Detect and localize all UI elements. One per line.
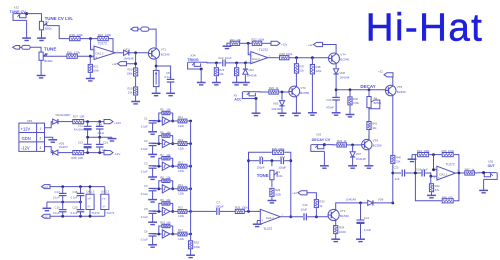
svg-text:DA2.1: DA2.1 — [440, 172, 448, 176]
svg-text:C3: C3 — [144, 162, 148, 166]
svg-text:33k: 33k — [396, 160, 401, 164]
svg-text:R25: R25 — [272, 147, 278, 151]
svg-text:VT6: VT6 — [373, 139, 379, 143]
svg-text:TUNE: TUNE — [44, 47, 57, 52]
svg-text:DA2.3: DA2.3 — [101, 190, 109, 194]
svg-text:+12: +12 — [44, 186, 49, 189]
svg-text:1N4148: 1N4148 — [356, 157, 366, 161]
svg-text:0.1uF: 0.1uF — [71, 211, 78, 215]
svg-text:VT3: VT3 — [300, 86, 306, 90]
svg-text:0.1uF: 0.1uF — [141, 147, 148, 151]
svg-text:120k: 120k — [178, 214, 184, 218]
svg-text:+12: +12 — [378, 70, 383, 74]
svg-text:TONE: TONE — [257, 173, 269, 178]
svg-text:10k: 10k — [236, 38, 241, 42]
svg-text:OUT: OUT — [488, 164, 495, 168]
svg-text:R46: R46 — [442, 195, 448, 199]
svg-text:+12v: +12v — [281, 43, 288, 47]
svg-text:10k: 10k — [166, 221, 171, 225]
svg-text:1uF: 1uF — [395, 177, 400, 181]
svg-text:470k: 470k — [353, 101, 359, 105]
svg-text:+12: +12 — [308, 43, 313, 47]
svg-text:100k: 100k — [194, 245, 201, 249]
svg-text:+12V: +12V — [114, 121, 121, 125]
svg-text:C5: C5 — [144, 207, 148, 211]
svg-text:C20: C20 — [72, 205, 78, 209]
svg-text:C6: C6 — [144, 229, 148, 233]
svg-text:-: - — [95, 48, 96, 52]
svg-text:+12: +12 — [292, 191, 297, 195]
svg-text:1uF: 1uF — [102, 148, 107, 152]
svg-text:390k: 390k — [278, 147, 285, 151]
svg-text:X34: X34 — [190, 53, 196, 57]
svg-text:1N4007: 1N4007 — [59, 145, 69, 149]
svg-text:X33: X33 — [316, 132, 322, 136]
svg-text:BC546: BC546 — [340, 214, 349, 218]
svg-text:1N4148: 1N4148 — [346, 198, 357, 202]
svg-text:C4: C4 — [144, 184, 148, 188]
svg-text:C12: C12 — [78, 124, 84, 128]
svg-text:R16: R16 — [67, 51, 73, 55]
svg-text:10k: 10k — [166, 176, 171, 180]
svg-text:X35: X35 — [488, 159, 494, 163]
svg-text:R20: R20 — [127, 68, 132, 72]
svg-text:10R: 10R — [78, 156, 83, 160]
svg-text:100k: 100k — [241, 206, 248, 210]
svg-text:C17: C17 — [55, 190, 61, 194]
svg-text:22k: 22k — [300, 68, 305, 72]
svg-text:-12V: -12V — [21, 145, 30, 150]
svg-text:10nF: 10nF — [225, 56, 232, 60]
svg-text:120k: 120k — [178, 169, 184, 173]
svg-text:BC546: BC546 — [161, 52, 170, 56]
svg-text:C22: C22 — [326, 98, 332, 102]
svg-text:R7: R7 — [160, 153, 164, 157]
svg-text:GDN: GDN — [22, 136, 31, 141]
svg-text:0.1uF: 0.1uF — [53, 196, 60, 200]
svg-text:C24: C24 — [416, 168, 422, 172]
svg-text:ACC: ACC — [234, 98, 242, 102]
svg-text:2.2uF: 2.2uF — [364, 228, 372, 232]
svg-text:R27: R27 — [73, 114, 79, 118]
svg-text:1N4148: 1N4148 — [123, 57, 134, 61]
svg-text:47k: 47k — [435, 188, 440, 192]
svg-text:B10k: B10k — [276, 174, 283, 178]
svg-text:R28: R28 — [71, 156, 77, 160]
svg-text:470nF: 470nF — [326, 106, 334, 110]
svg-text:R18: R18 — [280, 52, 286, 56]
svg-text:10R: 10R — [79, 114, 84, 118]
svg-text:TL072: TL072 — [263, 227, 272, 231]
svg-text:1uF: 1uF — [423, 168, 428, 172]
svg-text:R41: R41 — [372, 122, 377, 126]
svg-text:0.1uF: 0.1uF — [141, 170, 148, 174]
svg-text:100k: 100k — [127, 72, 133, 76]
svg-text:120k: 120k — [77, 33, 84, 37]
svg-text:R37: R37 — [300, 64, 305, 68]
svg-text:R3: R3 — [276, 170, 280, 174]
svg-text:-: - — [261, 211, 262, 215]
svg-text:VT2: VT2 — [340, 209, 346, 213]
svg-text:C13: C13 — [78, 140, 84, 144]
svg-text:BC556: BC556 — [300, 91, 309, 95]
svg-text:VD4: VD4 — [248, 68, 254, 72]
svg-text:-: - — [252, 53, 253, 57]
svg-text:R45: R45 — [442, 149, 448, 153]
svg-text:0.1uF: 0.1uF — [53, 211, 60, 215]
svg-text:R21: R21 — [230, 38, 236, 42]
svg-text:100pF: 100pF — [278, 166, 286, 170]
svg-text:VD6: VD6 — [378, 198, 384, 202]
svg-text:100pF: 100pF — [257, 166, 265, 170]
svg-text:VD8: VD8 — [340, 71, 346, 75]
svg-text:120k: 120k — [178, 237, 184, 241]
svg-text:+12V: +12V — [21, 127, 31, 132]
svg-text:R43: R43 — [417, 149, 423, 153]
svg-text:C21: C21 — [364, 216, 370, 220]
svg-text:R44: R44 — [435, 184, 440, 188]
svg-text:+V: +V — [87, 196, 91, 200]
svg-text:0.1uF: 0.1uF — [141, 215, 148, 219]
svg-text:+V: +V — [102, 196, 106, 200]
svg-text:TUNE CV LVL: TUNE CV LVL — [45, 16, 74, 21]
svg-text:1: 1 — [40, 127, 42, 131]
svg-text:C5: C5 — [259, 155, 263, 159]
svg-text:DA1.3: DA1.3 — [87, 190, 95, 194]
svg-text:BC546: BC546 — [397, 90, 406, 94]
svg-text:100k: 100k — [258, 37, 265, 41]
svg-text:47k: 47k — [448, 195, 453, 199]
svg-text:C18: C18 — [72, 190, 78, 194]
svg-text:1N4148: 1N4148 — [271, 107, 281, 111]
svg-text:-: - — [438, 168, 439, 172]
svg-text:1N4148: 1N4148 — [247, 74, 257, 78]
svg-text:10k: 10k — [219, 72, 224, 76]
svg-text:10k: 10k — [166, 153, 171, 157]
svg-text:120k: 120k — [178, 192, 184, 196]
svg-text:R8: R8 — [160, 176, 164, 180]
svg-text:R22: R22 — [252, 37, 258, 41]
svg-text:-V: -V — [102, 205, 105, 209]
svg-text:+: + — [261, 219, 263, 223]
svg-text:R19: R19 — [127, 87, 132, 91]
svg-text:R11: R11 — [178, 115, 183, 119]
svg-text:BC556: BC556 — [373, 144, 382, 148]
svg-text:120k: 120k — [178, 124, 184, 128]
svg-text:R39: R39 — [337, 139, 343, 143]
svg-text:TL072: TL072 — [259, 48, 268, 52]
svg-text:0.1uF: 0.1uF — [141, 192, 148, 196]
svg-text:R40: R40 — [396, 155, 401, 159]
svg-text:C1: C1 — [144, 116, 148, 120]
svg-text:0.1uF: 0.1uF — [98, 131, 105, 135]
svg-text:3: 3 — [40, 146, 42, 150]
svg-text:VD5: VD5 — [59, 142, 65, 146]
svg-text:TL072: TL072 — [446, 162, 455, 166]
svg-text:R13: R13 — [178, 160, 183, 164]
svg-text:R9: R9 — [160, 198, 164, 202]
svg-text:B100k: B100k — [44, 59, 53, 63]
svg-text:TL072: TL072 — [106, 211, 114, 215]
svg-text:120k: 120k — [74, 51, 81, 55]
svg-text:0.1uF: 0.1uF — [71, 196, 78, 200]
svg-text:100k: 100k — [448, 149, 455, 153]
svg-text:-V: -V — [87, 205, 90, 209]
svg-text:C14: C14 — [97, 123, 103, 127]
svg-text:10uF: 10uF — [301, 207, 308, 211]
svg-text:100k: 100k — [286, 52, 293, 56]
svg-text:VD1: VD1 — [125, 47, 131, 51]
svg-text:0.1uF: 0.1uF — [141, 237, 148, 241]
svg-text:VT5: VT5 — [397, 85, 403, 89]
svg-text:R10: R10 — [160, 221, 165, 225]
svg-text:TL072: TL072 — [92, 211, 100, 215]
svg-text:BC546: BC546 — [340, 58, 349, 62]
svg-text:+: + — [95, 55, 97, 59]
svg-text:TL072: TL072 — [98, 42, 107, 46]
svg-text:10k: 10k — [372, 126, 377, 130]
svg-text:R5: R5 — [160, 108, 164, 112]
svg-text:C11: C11 — [280, 155, 285, 159]
svg-text:R1: R1 — [45, 52, 49, 56]
svg-text:10k: 10k — [166, 108, 171, 112]
svg-text:C10: C10 — [218, 56, 224, 60]
svg-text:120k: 120k — [316, 69, 322, 73]
svg-text:100k: 100k — [275, 192, 281, 196]
svg-text:R22: R22 — [98, 33, 104, 37]
svg-text:10k: 10k — [166, 130, 171, 134]
svg-text:2: 2 — [40, 137, 42, 141]
svg-text:DA2.2: DA2.2 — [252, 57, 260, 61]
svg-text:+12: +12 — [112, 62, 117, 66]
svg-text:R18: R18 — [69, 33, 75, 37]
svg-text:R42: R42 — [353, 97, 358, 101]
svg-text:1N4148: 1N4148 — [340, 76, 350, 80]
svg-text:R12: R12 — [178, 138, 183, 142]
svg-text:C23: C23 — [393, 165, 399, 169]
svg-text:C16: C16 — [103, 140, 109, 144]
svg-text:100R: 100R — [339, 230, 346, 234]
svg-text:120k: 120k — [178, 146, 184, 150]
svg-text:47u/16v: 47u/16v — [74, 128, 84, 132]
svg-text:R14: R14 — [178, 183, 183, 187]
svg-text:R29: R29 — [275, 188, 280, 192]
svg-text:0.1uF: 0.1uF — [141, 124, 148, 128]
svg-text:R26: R26 — [235, 206, 241, 210]
svg-text:VD5: VD5 — [273, 102, 279, 106]
svg-text:B50k: B50k — [45, 27, 52, 31]
svg-text:R26: R26 — [269, 86, 275, 90]
svg-text:R17: R17 — [178, 228, 183, 232]
svg-text:120k: 120k — [105, 33, 112, 37]
svg-text:C2: C2 — [144, 139, 148, 143]
svg-text:Hi-Hat: Hi-Hat — [366, 7, 484, 50]
svg-text:B250k: B250k — [374, 101, 382, 105]
svg-text:100pF: 100pF — [215, 204, 223, 208]
svg-text:TRIGG: TRIGG — [187, 58, 199, 62]
svg-text:R23: R23 — [219, 68, 224, 72]
svg-text:1N4007: 1N4007 — [61, 113, 71, 117]
svg-text:10k: 10k — [128, 91, 133, 95]
svg-text:R21: R21 — [93, 64, 98, 68]
svg-text:VD7: VD7 — [356, 152, 362, 156]
svg-text:100k: 100k — [93, 68, 99, 72]
svg-text:R6: R6 — [160, 130, 164, 134]
svg-text:10k: 10k — [166, 198, 171, 202]
svg-text:R38: R38 — [316, 65, 321, 69]
svg-text:DECAY CV: DECAY CV — [312, 138, 331, 142]
svg-text:-12V: -12V — [114, 152, 120, 156]
svg-text:DECAY: DECAY — [360, 84, 375, 89]
svg-text:VT1: VT1 — [161, 47, 167, 51]
svg-text:VT4: VT4 — [340, 53, 346, 57]
svg-text:C19: C19 — [55, 205, 61, 209]
svg-text:R47: R47 — [465, 167, 471, 171]
svg-text:XP1: XP1 — [27, 119, 33, 123]
svg-text:R15: R15 — [178, 206, 183, 210]
svg-text:DA4.1: DA4.1 — [266, 216, 274, 220]
svg-text:0.1uF: 0.1uF — [165, 75, 172, 79]
svg-text:100k: 100k — [423, 149, 430, 153]
svg-text:R4: R4 — [374, 97, 378, 101]
